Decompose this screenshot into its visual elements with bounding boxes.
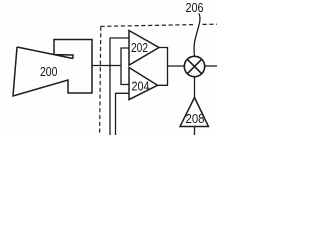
wire: amp 204 output to RF bus [158, 66, 168, 85]
wire: input split bus x=121 feeding amps 202 and 204 [121, 48, 129, 85]
svg-text:202: 202 [131, 40, 148, 55]
svg-text:204: 204 [132, 79, 150, 94]
svg-text:208: 208 [186, 111, 205, 126]
leader line from label 206 to mixer [194, 14, 200, 57]
mixer 206 (circle with X) [184, 56, 204, 76]
svg-text:206: 206 [186, 0, 204, 15]
wire: mixer LO port down to amp 208 [194, 77, 196, 98]
wire: antenna output into dashed module [92, 65, 121, 67]
svg-text:200: 200 [40, 64, 58, 79]
horn antenna 200 [13, 40, 92, 97]
wire: bias line A (corner at 110,38 running to bottom) [110, 38, 129, 135]
wire: amp 202 output to RF bus [159, 48, 168, 67]
wire: LO input below amp 208 [194, 127, 196, 136]
wire: RF bus into mixer [168, 65, 185, 67]
op-amp 208 (LO amplifier triangle pointing up) [180, 98, 209, 127]
wire: bias line D (corner at 115.5,93.3 running to bottom) [116, 93, 130, 135]
dashed module box left edge [100, 27, 101, 136]
dashed module box top edge [101, 25, 194, 27]
op-amp 202 (amplifier triangle) [129, 31, 159, 66]
op-amp 204 (amplifier triangle) [129, 68, 158, 100]
wire: mixer IF output to right edge [205, 65, 217, 67]
